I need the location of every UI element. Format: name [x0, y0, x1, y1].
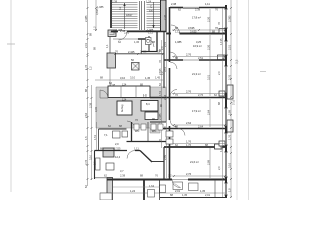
svg-text:2,0: 2,0 — [93, 161, 97, 165]
svg-text:1,11: 1,11 — [175, 30, 180, 34]
svg-text:1,8: 1,8 — [163, 126, 167, 130]
lower-left room fixtures — [106, 163, 114, 170]
svg-text:2,385: 2,385 — [84, 15, 88, 22]
svg-text:1,24: 1,24 — [146, 0, 152, 4]
svg-text:1,11: 1,11 — [205, 2, 210, 6]
svg-text:18/27: 18/27 — [126, 13, 133, 17]
svg-text:1,76: 1,76 — [84, 64, 88, 70]
svg-text:2,89: 2,89 — [228, 109, 232, 115]
svg-text:3,05: 3,05 — [94, 106, 98, 112]
svg-text:2,76: 2,76 — [186, 172, 192, 176]
section/grid lines (right margin) — [236, 0, 238, 200]
bottom room fixtures — [148, 190, 155, 198]
svg-text:1,0: 1,0 — [143, 95, 147, 99]
svg-text:2,325: 2,325 — [114, 147, 121, 151]
svg-text:1,45: 1,45 — [155, 76, 161, 80]
svg-text:1,135: 1,135 — [219, 38, 223, 45]
svg-text:2,64: 2,64 — [198, 125, 204, 129]
radiators — [219, 29, 225, 34]
svg-text:2,89: 2,89 — [207, 159, 211, 165]
svg-text:1,51: 1,51 — [158, 90, 162, 96]
svg-text:1,76: 1,76 — [228, 134, 232, 140]
svg-text:2,01: 2,01 — [205, 193, 211, 197]
dimension tick marks — [87, 7, 233, 198]
svg-text:1,35: 1,35 — [200, 189, 206, 193]
bottom room partitions — [143, 180, 145, 200]
svg-text:3,5: 3,5 — [235, 59, 239, 64]
duct with cross mark — [141, 39, 143, 54]
WC fixtures — [134, 124, 139, 130]
svg-text:2,64: 2,64 — [163, 94, 167, 100]
svg-text:2,64: 2,64 — [207, 109, 211, 115]
room partition walls — [170, 7, 183, 9]
svg-text:2,76: 2,76 — [186, 53, 192, 57]
svg-text:3,635: 3,635 — [190, 30, 197, 34]
svg-text:1,24: 1,24 — [130, 189, 136, 193]
svg-text:2,01: 2,01 — [163, 41, 167, 47]
svg-text:3,7: 3,7 — [120, 169, 124, 173]
rooms west wall — [169, 7, 171, 62]
svg-text:3,10: 3,10 — [120, 76, 126, 80]
svg-text:1,085: 1,085 — [97, 5, 104, 9]
svg-text:2,89: 2,89 — [163, 154, 167, 160]
svg-text:3,10: 3,10 — [88, 154, 92, 160]
svg-text:3,635: 3,635 — [188, 26, 195, 30]
svg-text:2,0: 2,0 — [217, 71, 221, 75]
svg-text:2,385: 2,385 — [158, 113, 162, 120]
svg-text:2,64: 2,64 — [186, 121, 192, 125]
svg-text:Aufzug: Aufzug — [121, 104, 124, 112]
svg-text:16,9 m²: 16,9 m² — [193, 44, 202, 48]
svg-text:2,01: 2,01 — [84, 42, 88, 48]
svg-text:2,76: 2,76 — [84, 159, 88, 165]
svg-text:3,25: 3,25 — [196, 40, 202, 44]
svg-text:2,385: 2,385 — [228, 15, 232, 22]
svg-text:2,76: 2,76 — [198, 93, 204, 97]
svg-text:2,26: 2,26 — [207, 16, 211, 22]
rooms cut out of core zone — [108, 86, 150, 98]
east facade wall — [225, 5, 227, 198]
svg-text:2,38: 2,38 — [195, 8, 201, 12]
svg-text:1,11: 1,11 — [134, 147, 139, 151]
svg-text:12,4: 12,4 — [115, 155, 121, 159]
svg-text:1,1: 1,1 — [105, 44, 109, 48]
svg-text:124: 124 — [122, 83, 127, 87]
svg-text:2,0: 2,0 — [217, 166, 221, 170]
svg-text:21,6 m²: 21,6 m² — [190, 160, 199, 164]
svg-text:21,3 m²: 21,3 m² — [192, 72, 201, 76]
svg-text:2,38: 2,38 — [171, 2, 177, 6]
svg-text:7,1: 7,1 — [104, 133, 108, 137]
inner courtyard / core zone (shaded) — [96, 87, 166, 133]
svg-text:2,425: 2,425 — [140, 50, 147, 54]
svg-text:17,8 m²: 17,8 m² — [192, 16, 201, 20]
service shaft (shaded) — [107, 53, 116, 68]
svg-text:2,76: 2,76 — [186, 90, 192, 94]
door swing arcs — [146, 39, 154, 47]
svg-text:17,9 m²: 17,9 m² — [192, 109, 201, 113]
svg-text:1,51: 1,51 — [93, 134, 97, 140]
svg-text:1,135: 1,135 — [219, 145, 223, 152]
svg-text:2,635: 2,635 — [158, 68, 162, 75]
corridor east wall — [163, 32, 165, 89]
svg-text:1,2: 1,2 — [93, 26, 97, 30]
svg-text:18/: 18/ — [149, 9, 153, 13]
svg-text:3,16: 3,16 — [228, 162, 232, 168]
svg-text:2,51: 2,51 — [198, 56, 204, 60]
facade windows — [225, 9, 227, 195]
svg-text:37,6: 37,6 — [232, 99, 236, 105]
svg-text:2,51: 2,51 — [228, 44, 232, 50]
svg-text:2,26: 2,26 — [163, 14, 167, 20]
svg-text:1,36: 1,36 — [134, 40, 140, 44]
bathroom/WC rooms — [99, 128, 127, 130]
svg-text:1,45: 1,45 — [145, 76, 151, 80]
lower-left room with splayed corner — [95, 150, 128, 152]
svg-text:3,10: 3,10 — [130, 76, 136, 80]
lobby wall below stairs — [111, 31, 118, 33]
svg-text:1,35: 1,35 — [182, 193, 188, 197]
balcony thresholds outside facade — [227, 85, 233, 99]
svg-text:2,0: 2,0 — [115, 142, 119, 146]
svg-text:1,76: 1,76 — [186, 140, 192, 144]
svg-text:1,085: 1,085 — [175, 40, 182, 44]
svg-text:1,2: 1,2 — [168, 174, 172, 178]
lower-left masonry wall (shaded) — [107, 178, 113, 201]
svg-text:3,51: 3,51 — [163, 66, 167, 72]
svg-text:1,2: 1,2 — [88, 66, 92, 70]
svg-text:1,8: 1,8 — [228, 188, 232, 192]
svg-text:124: 124 — [122, 98, 127, 102]
elevator cab — [108, 30, 116, 37]
svg-text:2,38: 2,38 — [112, 0, 118, 4]
svg-text:1,11: 1,11 — [148, 31, 153, 35]
svg-text:1,5: 1,5 — [84, 136, 88, 140]
svg-text:3,51: 3,51 — [207, 74, 211, 80]
svg-text:2,38: 2,38 — [110, 83, 116, 87]
svg-text:2,38: 2,38 — [120, 174, 126, 178]
svg-text:2,38: 2,38 — [88, 102, 92, 108]
svg-text:2,425: 2,425 — [128, 50, 135, 54]
property boundary line (left margin) — [10, 0, 12, 192]
svg-text:2,01: 2,01 — [124, 31, 130, 35]
svg-text:1,64: 1,64 — [149, 184, 155, 188]
svg-text:2,26: 2,26 — [207, 44, 211, 50]
svg-text:8,4: 8,4 — [146, 102, 150, 106]
svg-text:2,64: 2,64 — [84, 112, 88, 118]
svg-text:3,635: 3,635 — [95, 8, 99, 15]
stairwell west wall — [110, 0, 112, 28]
svg-text:3,76: 3,76 — [228, 74, 232, 80]
svg-text:1,76: 1,76 — [186, 143, 192, 147]
stairwell party wall (shaded) — [161, 0, 167, 32]
